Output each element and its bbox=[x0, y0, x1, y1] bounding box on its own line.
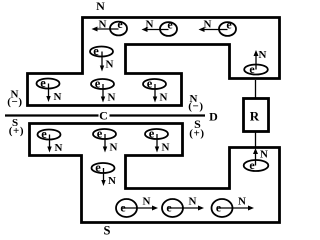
node S (+) right below plate bbox=[189, 117, 204, 140]
electron e10 (lower plate box, downward N arrow) bbox=[145, 127, 170, 154]
svg-text:e: e bbox=[93, 44, 99, 58]
svg-text:N: N bbox=[146, 19, 154, 31]
electron e11 (left descending duct below plates, downward N arrow) bbox=[92, 161, 117, 188]
svg-text:e: e bbox=[95, 77, 101, 91]
svg-text:N: N bbox=[110, 142, 118, 154]
svg-text:e: e bbox=[95, 161, 101, 175]
electron e9 (lower plate box, downward N arrow) bbox=[93, 127, 118, 154]
electron e15 (right riser below R, upward N arrow) bbox=[244, 148, 269, 172]
svg-text:N: N bbox=[55, 142, 63, 154]
svg-text:R: R bbox=[250, 109, 260, 124]
svg-text:N: N bbox=[108, 92, 116, 104]
electron e6 (upper plate box, downward N arrow) bbox=[91, 77, 116, 104]
svg-text:N: N bbox=[260, 149, 268, 161]
electron e14 (bottom run, rightward, with N field arrow) bbox=[212, 196, 255, 218]
resistor R bbox=[244, 99, 269, 132]
electron e16 (right riser above R, upward N arrow) bbox=[244, 49, 268, 76]
svg-text:e: e bbox=[40, 76, 46, 90]
svg-text:e: e bbox=[149, 127, 155, 141]
svg-text:N: N bbox=[108, 175, 116, 187]
svg-text:e: e bbox=[249, 62, 255, 76]
svg-text:(+): (+) bbox=[189, 128, 204, 140]
electron e12 (bottom run, rightward, with N field arrow) bbox=[116, 196, 158, 218]
svg-text:N: N bbox=[96, 0, 105, 13]
node N (-) left of plate C bbox=[7, 89, 22, 109]
electron e2 (top run, leftward, with N field arrow) bbox=[142, 18, 178, 36]
electron e13 (bottom run, rightward, with N field arrow) bbox=[162, 196, 204, 218]
electron e4 (left descending duct, downward N arrow) bbox=[90, 44, 114, 72]
svg-text:N: N bbox=[106, 59, 114, 71]
svg-text:e: e bbox=[249, 158, 255, 172]
svg-text:e: e bbox=[97, 127, 103, 141]
svg-text:e: e bbox=[41, 127, 47, 141]
svg-text:S: S bbox=[104, 224, 111, 238]
svg-text:C: C bbox=[99, 109, 108, 123]
svg-text:N: N bbox=[238, 196, 246, 208]
electron e3 (top run, leftward, with N field arrow) bbox=[199, 18, 237, 36]
electron e7 (upper plate box, downward N arrow) bbox=[143, 77, 168, 104]
svg-text:N: N bbox=[54, 91, 62, 103]
svg-text:N: N bbox=[143, 196, 151, 208]
svg-text:N: N bbox=[189, 196, 197, 208]
wire: lead from resistor R to lower conduit bbox=[255, 132, 257, 148]
svg-text:N: N bbox=[160, 92, 168, 104]
wire: lead from upper conduit to resistor R bbox=[255, 80, 257, 98]
svg-text:N: N bbox=[99, 19, 107, 31]
capacitor plate line C-D bbox=[5, 114, 205, 116]
electron e5 (upper plate box, downward N arrow) bbox=[37, 76, 62, 103]
wire: upper conduit loop (top of circuit, from capacitor plate C up left side, across top, down right side to resistor lead) bbox=[28, 18, 280, 106]
svg-text:(−): (−) bbox=[188, 101, 203, 113]
svg-text:D: D bbox=[209, 110, 218, 124]
svg-text:N: N bbox=[204, 19, 212, 31]
svg-text:(+): (+) bbox=[9, 125, 24, 137]
svg-text:N: N bbox=[259, 49, 267, 61]
node S (+) left below plate bbox=[9, 117, 24, 137]
electron e8 (lower plate box, downward N arrow) bbox=[38, 127, 63, 154]
electron e1 (top run, leftward, with N field arrow) bbox=[92, 17, 128, 35]
svg-text:e: e bbox=[147, 77, 153, 91]
svg-text:(−): (−) bbox=[7, 96, 22, 108]
svg-text:N: N bbox=[162, 142, 170, 154]
wire: lower conduit loop (from capacitor plate D down left side, across bottom, up right side to resistor lead) bbox=[30, 124, 280, 223]
node N (-) right of plate C bbox=[188, 93, 203, 113]
